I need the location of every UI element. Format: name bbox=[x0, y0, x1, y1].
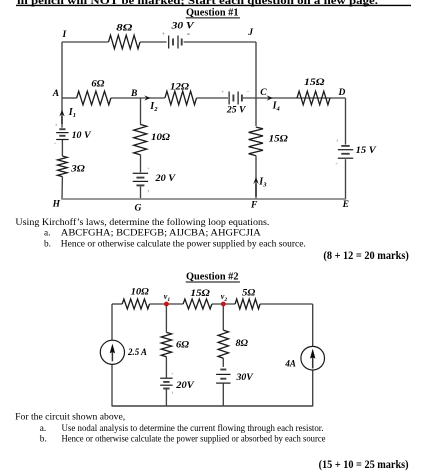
svg-text:I: I bbox=[62, 30, 67, 40]
wire left A to 10V battery bbox=[61, 98, 63, 128]
wire q2 left bottom bbox=[111, 364, 113, 406]
svg-text:Hence or otherwise calculate t: Hence or otherwise calculate the power s… bbox=[62, 434, 326, 444]
wire left 3ohm to H bbox=[61, 177, 63, 200]
wire q2 top seg4 bbox=[260, 303, 313, 305]
wire B to 10ohm bbox=[140, 98, 142, 124]
wire q2 top seg1 bbox=[112, 303, 122, 305]
wire row2 12ohm to 25V bbox=[197, 97, 229, 99]
svg-text:+: + bbox=[147, 166, 150, 172]
arrow I2 bbox=[144, 95, 150, 100]
svg-text:ABCFGHA; BCDEFGB; AIJCBA; AHGF: ABCFGHA; BCDEFGB; AIJCBA; AHGFCJIA bbox=[61, 229, 261, 239]
svg-text:b.: b. bbox=[44, 240, 51, 250]
minus mark 20V bbox=[147, 190, 149, 193]
wire top mid 8ohm to 30V bbox=[140, 41, 167, 43]
wire q2 6ohm to 20V bbox=[165, 357, 167, 378]
svg-text:25 V: 25 V bbox=[226, 106, 246, 116]
svg-text:b.: b. bbox=[40, 434, 47, 444]
wire 15ohm mid to F bbox=[255, 156, 257, 200]
svg-text:15 V: 15 V bbox=[356, 146, 377, 156]
svg-text:Question #1: Question #1 bbox=[186, 6, 239, 18]
minus mark 30V bbox=[187, 33, 190, 35]
battery V 30V bbox=[168, 36, 170, 49]
svg-text:4A: 4A bbox=[284, 359, 295, 369]
arrow I1 bbox=[61, 116, 63, 124]
battery V 20V q2 bbox=[160, 377, 172, 379]
svg-text:3Ω: 3Ω bbox=[70, 164, 85, 174]
battery V 25V bbox=[228, 92, 230, 105]
svg-text:8Ω: 8Ω bbox=[236, 339, 249, 349]
svg-text:20V: 20V bbox=[175, 381, 194, 391]
svg-text:30V: 30V bbox=[235, 373, 253, 383]
wire q2 bottom bbox=[112, 405, 313, 407]
svg-text:6Ω: 6Ω bbox=[91, 79, 104, 89]
resistor R 8ohm q2 bbox=[218, 330, 228, 358]
wire D to 15V battery bbox=[345, 98, 347, 145]
svg-text:20 V: 20 V bbox=[154, 174, 175, 184]
battery V 20V bbox=[133, 172, 148, 174]
header underline rule bbox=[16, 4, 411, 6]
wire left 10V to 3ohm bbox=[61, 140, 63, 156]
wire q2 right bottom bbox=[312, 370, 314, 407]
wire bottom H-E bbox=[62, 198, 346, 200]
wire q2 v1 to 6ohm bbox=[165, 304, 167, 332]
resistor R 12ohm bbox=[165, 91, 197, 105]
svg-text:G: G bbox=[135, 203, 142, 213]
svg-text:8Ω: 8Ω bbox=[116, 24, 132, 34]
svg-text:+: + bbox=[335, 161, 338, 167]
svg-text:6Ω: 6Ω bbox=[176, 341, 189, 351]
wire q2 30V to bottom bbox=[222, 384, 224, 407]
resistor R 10ohm bbox=[134, 124, 147, 154]
svg-text:J: J bbox=[247, 28, 253, 38]
wire 20V battery to G bbox=[140, 186, 142, 199]
svg-text:C: C bbox=[260, 88, 267, 98]
wire top left I to 8ohm bbox=[62, 41, 109, 43]
current source 4A bbox=[301, 346, 325, 370]
resistor R 10ohm q2 bbox=[122, 299, 149, 309]
svg-text:12Ω: 12Ω bbox=[170, 82, 189, 92]
svg-text:10 V: 10 V bbox=[72, 131, 92, 141]
wire C to 15ohm mid bbox=[255, 98, 257, 126]
svg-text:For the circuit shown above,: For the circuit shown above, bbox=[15, 413, 125, 423]
svg-text:Hence or otherwise calculate t: Hence or otherwise calculate the power s… bbox=[61, 240, 306, 250]
minus mark 10V bbox=[55, 124, 57, 126]
svg-text:5Ω: 5Ω bbox=[242, 288, 255, 298]
arrow I3 bbox=[255, 183, 257, 196]
node v1 bbox=[164, 302, 169, 307]
node v2 bbox=[221, 302, 226, 307]
svg-text:Question #2: Question #2 bbox=[186, 270, 239, 282]
svg-text:(8 + 12 = 20 marks): (8 + 12 = 20 marks) bbox=[323, 250, 409, 262]
wire q2 top seg2 bbox=[150, 303, 184, 305]
svg-text:2.5 A: 2.5 A bbox=[127, 348, 147, 358]
wire q2 v2 to 8ohm bbox=[222, 304, 224, 330]
arrow I4 bbox=[267, 95, 273, 100]
wire q2 right top bbox=[312, 304, 314, 347]
battery V 30V q2 bbox=[220, 369, 226, 371]
resistor R 15ohm q2 bbox=[183, 299, 212, 309]
svg-text:E: E bbox=[342, 200, 349, 210]
wire q2 8ohm to 30V bbox=[222, 358, 224, 367]
svg-text:B: B bbox=[130, 89, 137, 99]
svg-text:F: F bbox=[250, 201, 258, 211]
svg-text:+: + bbox=[162, 32, 165, 38]
resistor R 15ohm top bbox=[297, 91, 330, 105]
svg-text:A: A bbox=[52, 89, 59, 99]
wire row2 25V to C-D bbox=[243, 97, 346, 99]
wire q2 20V to bottom bbox=[165, 389, 167, 407]
resistor R 8ohm bbox=[109, 35, 141, 49]
wire row2 A to 6ohm bbox=[62, 97, 77, 99]
minus mark 15V bbox=[336, 139, 338, 141]
resistor R 3ohm bbox=[58, 156, 68, 177]
wire q2 top seg3 bbox=[212, 303, 235, 305]
svg-text:10Ω: 10Ω bbox=[131, 288, 149, 298]
current source 2.5A bbox=[100, 340, 124, 364]
svg-text:30 V: 30 V bbox=[170, 22, 194, 32]
wire left column I-A bbox=[61, 42, 63, 98]
svg-text:H: H bbox=[52, 199, 61, 209]
wire 10ohm to 20V battery bbox=[140, 155, 142, 173]
svg-text:Use nodal analysis to determin: Use nodal analysis to determine the curr… bbox=[62, 423, 324, 434]
svg-text:+: + bbox=[221, 90, 224, 96]
battery V 10V bbox=[59, 128, 65, 130]
svg-text:a.: a. bbox=[40, 424, 46, 434]
svg-text:15Ω: 15Ω bbox=[269, 135, 288, 145]
svg-text:15Ω: 15Ω bbox=[304, 78, 325, 88]
svg-text:10Ω: 10Ω bbox=[151, 133, 170, 143]
svg-text:a.: a. bbox=[44, 229, 50, 239]
wire row2 6ohm to 12ohm bbox=[111, 97, 165, 99]
svg-text:+: + bbox=[54, 141, 57, 147]
svg-text:15Ω: 15Ω bbox=[190, 289, 210, 299]
svg-text:+: + bbox=[171, 372, 174, 377]
svg-text:D: D bbox=[338, 88, 346, 98]
resistor R 6ohm bbox=[77, 91, 111, 105]
svg-text:(15 + 10 = 25 marks): (15 + 10 = 25 marks) bbox=[319, 459, 409, 471]
resistor R 15ohm mid bbox=[249, 127, 263, 156]
svg-text:Using Kirchoff’s laws, determi: Using Kirchoff’s laws, determine the fol… bbox=[15, 217, 269, 228]
wire J down to C bbox=[255, 42, 257, 98]
wire 15V battery to E bbox=[345, 159, 347, 199]
wire top right 30V to J bbox=[184, 41, 256, 43]
resistor R 5ohm q2 bbox=[235, 299, 260, 309]
wire q2 left top bbox=[111, 304, 113, 340]
resistor R 6ohm q2 bbox=[161, 332, 171, 356]
battery V 15V bbox=[341, 145, 349, 147]
